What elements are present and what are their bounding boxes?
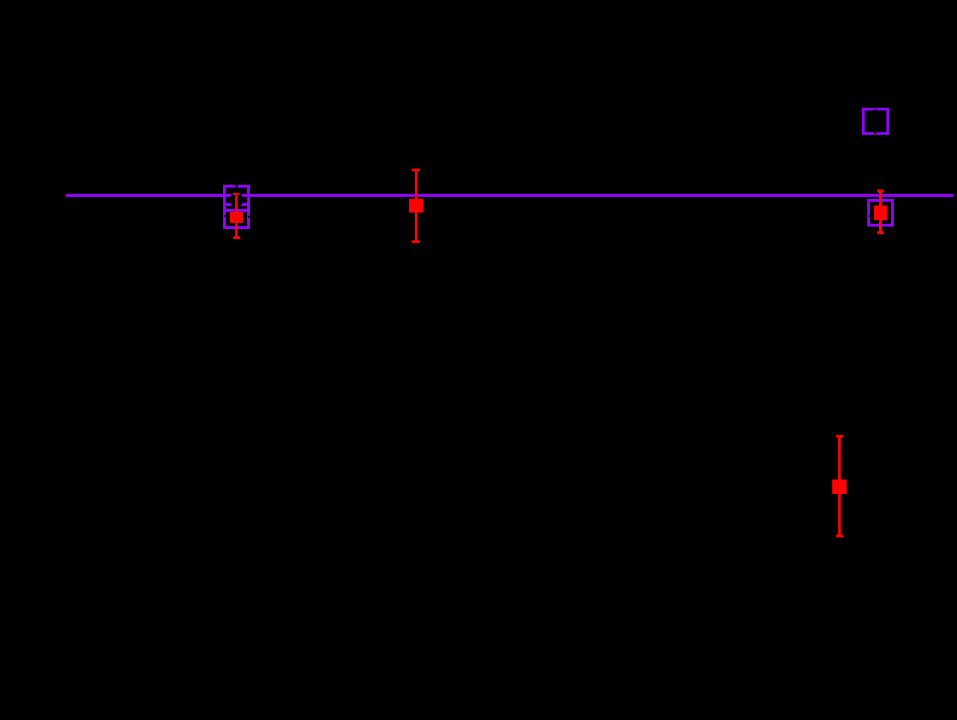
cluster A: black error-bar cap	[233, 188, 240, 191]
point D: red error bar stem	[838, 436, 841, 537]
point B: red error bar top cap	[412, 169, 420, 172]
cluster C: red error bar bottom cap	[877, 231, 884, 234]
point B: red error bar stem	[415, 170, 418, 243]
legend: black error-bar stem notch	[874, 110, 877, 134]
cluster A: black occluding circle marker	[230, 193, 244, 207]
cluster C: black nick on left edge	[869, 215, 871, 217]
point D: red filled square marker	[832, 480, 847, 495]
cluster A: red error bar top cap	[233, 193, 240, 195]
cluster A: black nick on right edge	[248, 216, 250, 218]
cluster A: black error-bar stem (notches upper square)	[235, 185, 238, 199]
point D: red error bar top cap	[836, 435, 843, 438]
cluster C: violet open square marker	[869, 200, 893, 225]
cluster A: black nick on left edge	[225, 215, 227, 217]
cluster C: red filled square marker	[874, 206, 887, 221]
cluster A: red filled square marker	[230, 212, 243, 223]
cluster A: red error bar stem	[235, 193, 238, 239]
point B: red error bar bottom cap	[412, 240, 420, 243]
cluster C: red error bar top cap	[877, 190, 884, 193]
point D: red error bar bottom cap	[836, 535, 843, 538]
cluster A: upper violet open square (on line)	[224, 186, 248, 210]
cluster A: lower violet open square (marker under)	[224, 204, 248, 227]
cluster C: red error bar stem	[879, 191, 882, 234]
horizontal theory line (violet)	[66, 194, 954, 197]
legend: violet open square entry	[863, 109, 887, 133]
point B: red filled square marker	[409, 199, 423, 213]
cluster A: red error bar bottom cap	[233, 236, 240, 239]
